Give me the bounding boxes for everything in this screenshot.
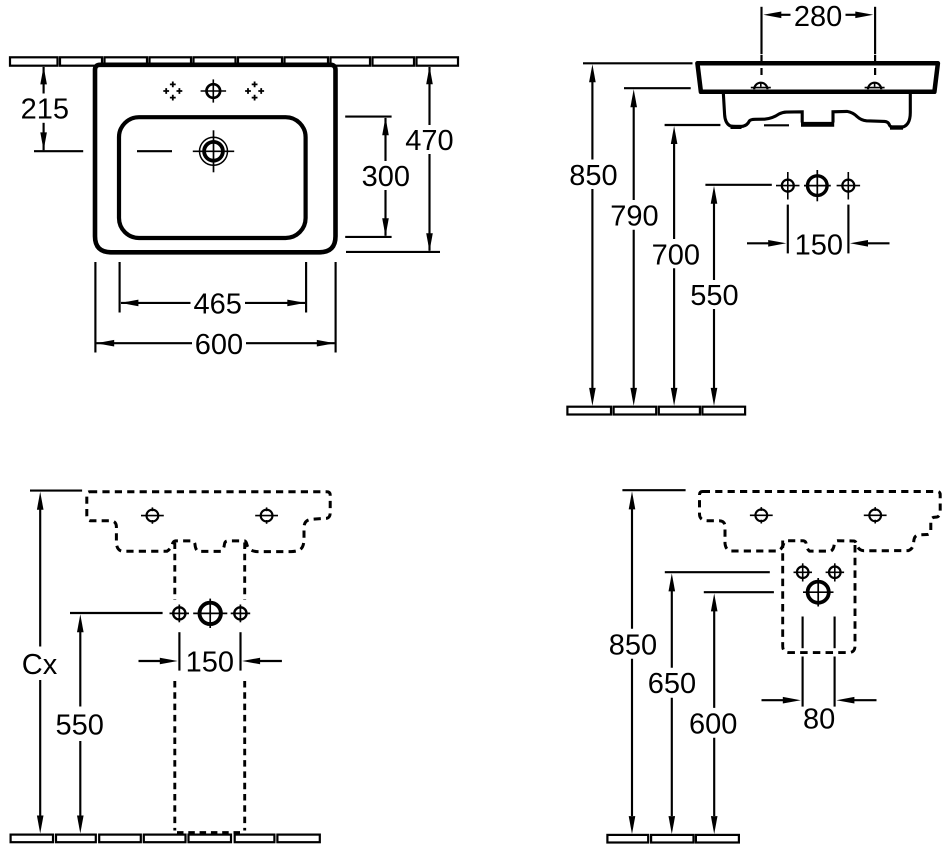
- svg-text:Cx: Cx: [22, 649, 58, 681]
- dimension 80: [762, 617, 877, 736]
- pedestal drain hole: [803, 578, 834, 607]
- svg-text:790: 790: [610, 201, 658, 233]
- slab fixing hole right (side, dashed): [864, 507, 887, 523]
- svg-text:150: 150: [186, 647, 234, 679]
- dimension 550 (side view): [690, 185, 771, 406]
- wall holes row (front): small right: [231, 605, 251, 623]
- pedestal fixing hole right: [826, 563, 845, 581]
- floor line (side view): [567, 407, 745, 415]
- slab fixing hole left (side, dashed): [750, 507, 773, 523]
- floor line (bottom side view): [607, 835, 739, 843]
- svg-text:300: 300: [362, 161, 410, 193]
- wall drain hole small left: [776, 172, 800, 200]
- svg-text:550: 550: [690, 280, 738, 312]
- overflow drain (top view): [193, 130, 234, 172]
- floor line (front view): [11, 835, 320, 843]
- svg-text:850: 850: [609, 629, 657, 661]
- fixing hole axis lines (dashed): [762, 55, 876, 80]
- wall holes row (front): small left: [170, 605, 190, 623]
- dimension 850 (side view): [569, 63, 692, 406]
- svg-text:470: 470: [405, 125, 453, 157]
- dimension 700: [652, 125, 789, 406]
- basin silhouette (side view, dashed): [700, 492, 941, 552]
- svg-text:150: 150: [795, 229, 843, 261]
- svg-text:650: 650: [648, 668, 696, 700]
- svg-text:280: 280: [794, 1, 842, 33]
- dimension 550 (front view): [56, 613, 163, 834]
- pedestal fixing hole left: [794, 563, 813, 581]
- pedestal (side view, dashed): [783, 541, 855, 653]
- washbasin rim (side view): [697, 63, 938, 92]
- svg-text:850: 850: [569, 160, 617, 192]
- dimension 280: [762, 1, 876, 54]
- dimension 600 (bottom side view): [689, 592, 774, 834]
- wall section (top view): [10, 57, 458, 65]
- wall holes row (front): drain center: [193, 599, 227, 628]
- fixing hole left (side view): [751, 83, 771, 90]
- fixing hole right (side view): [865, 83, 885, 90]
- dimension 850 (bottom side view): [609, 490, 686, 834]
- svg-text:550: 550: [56, 710, 104, 742]
- svg-text:600: 600: [195, 329, 243, 361]
- basin underside profile (side view): [723, 93, 910, 128]
- dimension 650: [648, 572, 770, 834]
- dimension 150 (side view): [747, 205, 890, 262]
- tap hole (center, top view): [201, 79, 227, 102]
- dimension 465: [120, 262, 307, 321]
- slab fixing hole right (front): [255, 507, 278, 523]
- wall drain hole center: [804, 170, 831, 201]
- dimension 790: [610, 88, 690, 406]
- slab fixing hole left (front): [141, 507, 164, 523]
- dimension 300: [345, 117, 410, 237]
- pedestal (front view, dashed): [175, 543, 245, 833]
- dimension 215: [21, 66, 69, 150]
- inner bowl (top view): [119, 117, 306, 238]
- svg-text:600: 600: [689, 708, 737, 740]
- optional tap hole mark right: [245, 82, 264, 101]
- centerline of drain: [34, 150, 172, 152]
- dimension 470: [346, 66, 454, 252]
- wall drain hole small right: [837, 172, 861, 200]
- dimension 150 (front view): [139, 632, 282, 678]
- dimension Cx: [22, 491, 82, 834]
- svg-text:700: 700: [652, 239, 700, 271]
- svg-text:215: 215: [21, 94, 69, 126]
- svg-text:80: 80: [803, 704, 835, 736]
- basin silhouette (front view, dashed): [87, 492, 330, 552]
- optional tap hole mark left: [163, 82, 182, 101]
- washbasin outer rim (top view): [95, 65, 336, 253]
- dimension 600: [95, 262, 335, 361]
- svg-text:465: 465: [194, 289, 242, 321]
